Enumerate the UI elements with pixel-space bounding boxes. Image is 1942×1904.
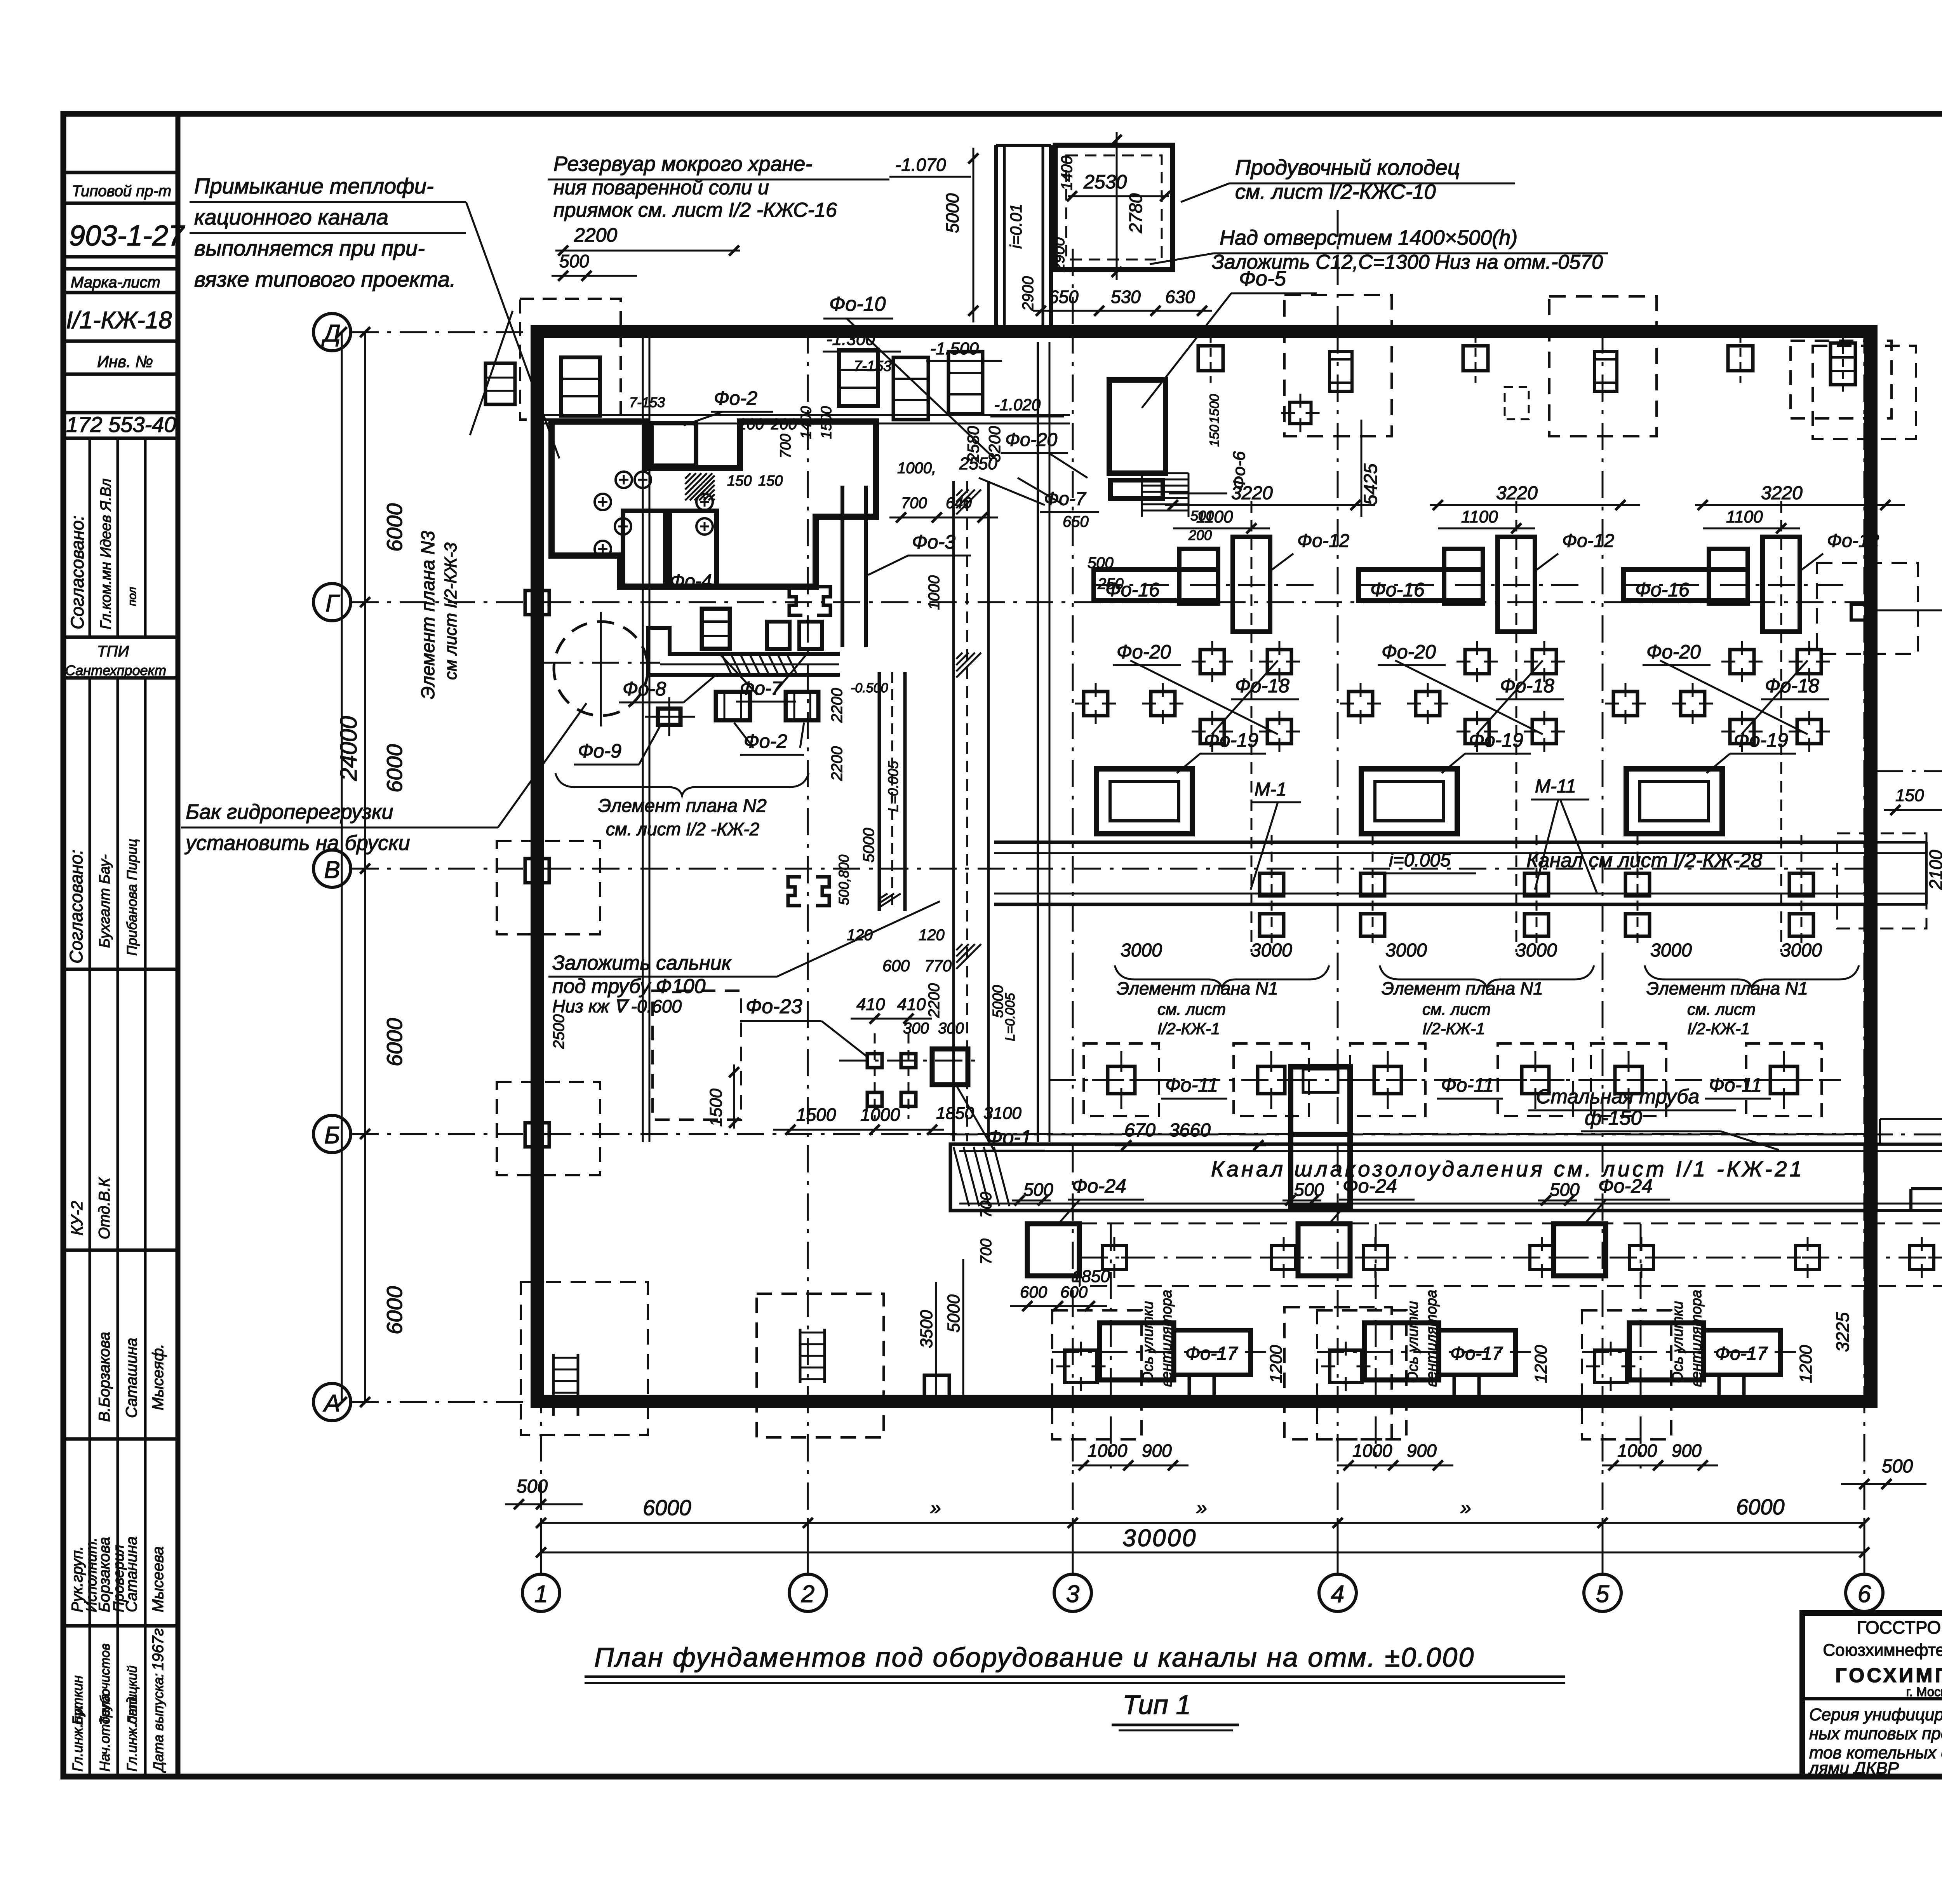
svg-text:-1.500: -1.500 xyxy=(930,339,979,358)
svg-text:вентилятора: вентилятора xyxy=(1423,1290,1440,1387)
svg-text:Фо-10: Фо-10 xyxy=(829,293,886,315)
svg-text:Мысеяф.: Мысеяф. xyxy=(150,1344,167,1410)
svg-text:Б: Б xyxy=(324,1122,340,1149)
svg-text:1500: 1500 xyxy=(796,1104,836,1125)
label Фо-23 xyxy=(740,995,866,1056)
svg-text:2200: 2200 xyxy=(828,746,846,781)
ladder hatch near top wall xyxy=(1142,473,1189,517)
svg-text:Канал см лист I/2-КЖ-28: Канал см лист I/2-КЖ-28 xyxy=(1526,849,1762,872)
hatched pad xyxy=(685,473,715,500)
module 3: label Фо-19 xyxy=(1707,729,1796,773)
svg-text:530: 530 xyxy=(1111,287,1141,307)
module 2: label Фо-20 xyxy=(1378,641,1446,665)
piers pair at axis 2 top xyxy=(889,352,998,523)
svg-text:Фо-18: Фо-18 xyxy=(1500,675,1554,697)
module 1: dim 3220/1100 xyxy=(1165,483,1375,533)
svg-text:Низ кж ∇ -0.600: Низ кж ∇ -0.600 xyxy=(552,996,682,1016)
svg-text:Фо-24: Фо-24 xyxy=(1072,1175,1126,1197)
dims 3500 5000 left of fans xyxy=(917,1259,963,1399)
svg-text:Фо-5: Фо-5 xyxy=(1239,267,1286,290)
outside pier left of wall xyxy=(486,363,515,404)
vertical service line pair left bay xyxy=(643,335,649,1142)
svg-text:Фо-24: Фо-24 xyxy=(1598,1175,1653,1197)
C-bracket symbols xyxy=(788,587,830,906)
svg-text:5000: 5000 xyxy=(860,828,877,862)
foundation Фо-7 row xyxy=(702,609,822,649)
svg-text:вентилятора: вентилятора xyxy=(1688,1290,1705,1387)
svg-text:Фо-20: Фо-20 xyxy=(1117,641,1171,663)
svg-text:Элемент плана N1: Элемент плана N1 xyxy=(1382,978,1543,998)
svg-text:7-153: 7-153 xyxy=(854,358,891,375)
svg-text:А: А xyxy=(322,1390,340,1417)
module 3: dim 3000 row xyxy=(1650,940,1822,961)
svg-text:Отд.В.К: Отд.В.К xyxy=(96,1177,113,1239)
svg-text:Канал шлакозолоудаления см.: Канал шлакозолоудаления см. лист I/1 -КЖ… xyxy=(1211,1157,1805,1181)
element plan 3 thick outline xyxy=(552,422,876,587)
module 1: label Фо-12 xyxy=(1270,531,1349,571)
svg-text:кационного канала: кационного канала xyxy=(194,205,388,229)
svg-text:700: 700 xyxy=(901,495,927,512)
svg-text:Лапицкий: Лапицкий xyxy=(125,1665,140,1726)
Фо-11 row centreline xyxy=(1049,1079,1841,1081)
svg-text:500,800: 500,800 xyxy=(836,855,852,905)
small piers on left wall xyxy=(525,591,549,1147)
extension lines from axis circles xyxy=(351,332,1864,1574)
anchor circles group xyxy=(595,472,713,557)
svg-text:6000: 6000 xyxy=(382,744,407,793)
dim 2200 500 top left xyxy=(552,224,740,281)
module 2: fan foundation Фо-17 group xyxy=(1317,1224,1531,1469)
module 3: channel column pair xyxy=(1789,835,1813,944)
svg-text:Ось улитки: Ось улитки xyxy=(1140,1301,1156,1383)
svg-text:см. лист I/2 -КЖ-2: см. лист I/2 -КЖ-2 xyxy=(606,819,759,839)
module 2: channel column pair xyxy=(1524,835,1650,944)
pad detail at А2 xyxy=(800,1329,825,1383)
text продувочный колодец xyxy=(1181,155,1515,204)
Фо-11 labels xyxy=(1161,1074,1771,1099)
svg-text:3500: 3500 xyxy=(917,1310,936,1348)
module 2: foundation Фо-16 group xyxy=(1359,501,1582,952)
svg-text:см. лист: см. лист xyxy=(1687,1000,1756,1018)
vertical channel Фо-3 xyxy=(842,481,1018,1141)
module 2: label Фо-19 xyxy=(1442,729,1531,773)
svg-text:Стальная труба: Стальная труба xyxy=(1536,1085,1699,1108)
svg-text:700: 700 xyxy=(978,1239,995,1265)
svg-text:Элемент плана N3: Элемент плана N3 xyxy=(418,531,439,699)
svg-text:500: 500 xyxy=(1882,1456,1913,1477)
svg-text:6000: 6000 xyxy=(643,1495,691,1520)
svg-text:Элемент плана N2: Элемент плана N2 xyxy=(598,796,767,816)
svg-text:Ось улитки: Ось улитки xyxy=(1405,1301,1421,1383)
svg-text:i=0.01: i=0.01 xyxy=(1007,204,1025,249)
svg-text:500: 500 xyxy=(559,251,589,271)
svg-text:1: 1 xyxy=(534,1581,548,1608)
svg-text:4: 4 xyxy=(1331,1581,1344,1608)
svg-text:I/2-КЖ-1: I/2-КЖ-1 xyxy=(1157,1019,1220,1038)
svg-text:Фо-23: Фо-23 xyxy=(746,995,802,1018)
foundation Фо-9 xyxy=(574,697,695,765)
svg-text:3225: 3225 xyxy=(1832,1312,1853,1352)
small wall piers top row xyxy=(1198,334,1753,383)
svg-text:Исполнит.: Исполнит. xyxy=(84,1537,100,1612)
title block grid xyxy=(1802,1613,1942,1777)
svg-text:172 553-40: 172 553-40 xyxy=(66,412,176,437)
svg-text:Фо-3: Фо-3 xyxy=(912,531,955,553)
svg-text:вязке типового проекта.: вязке типового проекта. xyxy=(194,267,456,291)
svg-text:Согласовано:: Согласовано: xyxy=(67,516,87,629)
dims 410 410 300 300 1500 1000 xyxy=(706,995,964,1135)
svg-text:Фо-17: Фо-17 xyxy=(1715,1343,1768,1364)
tank dashed rect приямок xyxy=(520,299,621,420)
module 3: foundation Фо-19 xyxy=(1626,769,1722,834)
stamp: 903-1-27 xyxy=(69,219,185,252)
module 1: element plan N1 caption xyxy=(1115,965,1329,1038)
svg-text:3000: 3000 xyxy=(1385,940,1427,961)
module 1: steel embed label М-1 xyxy=(1251,779,1301,890)
svg-text:120: 120 xyxy=(847,927,873,944)
level marks -1.300 -1.500 xyxy=(823,330,1002,361)
svg-text:Фо-19: Фо-19 xyxy=(1734,729,1788,751)
element plan 2 caption xyxy=(555,773,809,839)
svg-text:Фо-16: Фо-16 xyxy=(1635,579,1690,601)
module 2: dims 1200 / 1000 900 xyxy=(1337,1345,1550,1470)
building outer walls xyxy=(537,331,1871,1401)
svg-text:1850: 1850 xyxy=(1072,1267,1110,1286)
module 1: Фо-20 / Фо-18 pier cluster xyxy=(1075,641,1300,752)
svg-text:Фо-18: Фо-18 xyxy=(1765,675,1819,697)
svg-text:630: 630 xyxy=(1165,287,1195,307)
svg-text:вентилятора: вентилятора xyxy=(1159,1290,1175,1387)
svg-text:600: 600 xyxy=(1020,1283,1048,1301)
rotated dim 5425 xyxy=(1361,420,1381,517)
svg-text:700: 700 xyxy=(978,1192,995,1218)
module 2: label Фо-12 xyxy=(1535,531,1614,571)
misc duct dim marks xyxy=(550,681,888,1049)
svg-text:Фо-17: Фо-17 xyxy=(1450,1343,1503,1364)
vertical line from inlet channel down xyxy=(1038,342,1049,1142)
svg-text:i=0.005: i=0.005 xyxy=(1389,850,1451,871)
svg-text:Саташина: Саташина xyxy=(123,1338,140,1418)
svg-text:Фо-18: Фо-18 xyxy=(1235,675,1289,697)
svg-text:Фо-16: Фо-16 xyxy=(1370,579,1425,601)
svg-text:900: 900 xyxy=(1142,1441,1172,1461)
svg-text:Фо-12: Фо-12 xyxy=(1562,531,1614,551)
axis circle Д xyxy=(313,314,351,351)
main caption план фундаментов xyxy=(585,1642,1565,1683)
label Фо-10 xyxy=(823,293,994,458)
text бак гидроперегрузки xyxy=(181,703,586,855)
slag removal channel канал шлакозолоудаления xyxy=(950,1119,1942,1211)
label Фо-7 near axis 2 xyxy=(979,478,1099,512)
svg-text:300: 300 xyxy=(903,1020,929,1037)
svg-text:500: 500 xyxy=(1088,554,1114,571)
svg-text:5: 5 xyxy=(1596,1581,1610,1608)
svg-text:Фо-11: Фо-11 xyxy=(1165,1074,1218,1096)
svg-text:1200: 1200 xyxy=(1796,1345,1815,1383)
module 3: dims 1200 / 1000 900 xyxy=(1602,1345,1815,1470)
svg-text:-0.500: -0.500 xyxy=(851,681,888,695)
module 1: channel column pair xyxy=(1260,835,1385,944)
svg-text:Мысеева: Мысеева xyxy=(150,1547,167,1613)
svg-text:»: » xyxy=(930,1497,941,1519)
svg-text:5000: 5000 xyxy=(942,193,962,233)
axis circle 6 xyxy=(1846,1574,1883,1611)
svg-text:см лист I/2-КЖ-3: см лист I/2-КЖ-3 xyxy=(441,542,460,680)
module 1: label Фо-20 xyxy=(1113,641,1181,665)
Фо-11 dashed boiler column foundations xyxy=(1084,1043,1822,1116)
svg-text:Марка-лист: Марка-лист xyxy=(71,274,160,291)
svg-text:1500: 1500 xyxy=(1207,394,1222,423)
svg-text:»: » xyxy=(1460,1497,1471,1519)
module 1: label Фо-19 xyxy=(1177,729,1266,773)
svg-text:2780: 2780 xyxy=(1126,193,1146,233)
svg-text:Заложить сальник: Заложить сальник xyxy=(552,952,732,974)
label Фо-7 xyxy=(719,653,808,702)
svg-text:1000: 1000 xyxy=(1088,1441,1128,1461)
svg-text:770: 770 xyxy=(924,956,952,975)
svg-text:Фо-8: Фо-8 xyxy=(623,678,666,700)
rotated label элемент плана N3 xyxy=(418,311,513,699)
rotated dims right margin 2100 2740 5530 3225 xyxy=(1832,835,1942,1360)
dims 500 250 650 xyxy=(1063,513,1124,592)
dim 670 3660 xyxy=(1115,1120,1266,1150)
svg-text:650: 650 xyxy=(1049,287,1079,307)
main channel канал I/2-КЖ-28 xyxy=(994,842,1874,904)
module 3: label Фо-20 xyxy=(1643,641,1711,665)
svg-text:ТПИ: ТПИ xyxy=(97,643,129,660)
svg-text:Гл.ком.мн Идеев Я.Вл: Гл.ком.мн Идеев Я.Вл xyxy=(98,479,114,629)
svg-text:1967г: 1967г xyxy=(150,1628,167,1671)
text примыкание теплофикационного канала xyxy=(190,174,559,458)
svg-text:3220: 3220 xyxy=(1231,483,1273,503)
svg-text:670: 670 xyxy=(1124,1120,1155,1141)
svg-text:Фо-20: Фо-20 xyxy=(1382,641,1436,663)
label Фо-1 xyxy=(955,1084,1045,1151)
svg-text:1200: 1200 xyxy=(1531,1345,1550,1383)
stamp: signatures band (rotated) xyxy=(69,1332,167,1612)
svg-text:Буткин: Буткин xyxy=(70,1675,85,1725)
svg-text:М-1: М-1 xyxy=(1255,779,1287,800)
dims 650 530 630 xyxy=(1033,287,1212,316)
svg-text:1500: 1500 xyxy=(706,1089,726,1127)
svg-text:-1.020: -1.020 xyxy=(994,395,1041,414)
text резервуар xyxy=(548,152,889,221)
module 3: label Фо-12 xyxy=(1800,531,1879,571)
svg-text:Продувочный колодец: Продувочный колодец xyxy=(1235,155,1460,179)
svg-text:700: 700 xyxy=(778,434,794,458)
foundation Фо-2 upper with dims xyxy=(629,387,835,489)
svg-text:650: 650 xyxy=(1063,513,1089,530)
dims 700 700 600 600 xyxy=(978,1192,1107,1311)
svg-text:г. Москва: г. Москва xyxy=(1906,1685,1942,1699)
bottom dim chain 30000 xyxy=(536,1525,1869,1557)
svg-text:Фо-24: Фо-24 xyxy=(1343,1175,1397,1197)
svg-text:120: 120 xyxy=(919,927,945,944)
lower Фо-2 pair xyxy=(716,692,818,755)
svg-text:Фо-17: Фо-17 xyxy=(1185,1343,1239,1364)
central duct stack xyxy=(1291,1067,1350,1206)
slag channel caption xyxy=(1211,1157,1805,1181)
right margin top dashed pad xyxy=(1791,334,1892,418)
svg-text:3000: 3000 xyxy=(1516,940,1557,961)
module 1: ось улитки вентилятора (rotated) xyxy=(1140,1290,1175,1387)
svg-text:300: 300 xyxy=(938,1020,964,1037)
small pads near Фо-1 xyxy=(839,1033,979,1119)
module 2: element plan N1 caption xyxy=(1380,965,1594,1038)
row axis dash-dot lines xyxy=(352,332,1876,1402)
small wall piers bottom row xyxy=(924,1375,1744,1400)
crane beam lines xyxy=(535,415,1070,463)
svg-text:Резервуар мокрого хране-: Резервуар мокрого хране- xyxy=(553,152,812,176)
second vertical duct xyxy=(860,672,905,911)
svg-text:L=0.005: L=0.005 xyxy=(885,761,901,812)
axis circle 5 xyxy=(1584,1574,1621,1611)
module 2: label Фо-18 xyxy=(1496,675,1564,699)
svg-text:Трубочистов: Трубочистов xyxy=(98,1643,113,1725)
svg-text:Фо-19: Фо-19 xyxy=(1469,729,1523,751)
top dashed foundation at axis 4 xyxy=(1281,295,1392,436)
svg-text:250: 250 xyxy=(1097,575,1124,592)
svg-text:Фо-11: Фо-11 xyxy=(1441,1074,1494,1096)
svg-text:3: 3 xyxy=(1066,1581,1079,1608)
module 2: dim 3220/1100 xyxy=(1430,483,1640,533)
svg-text:24000: 24000 xyxy=(336,716,362,781)
svg-text:Г: Г xyxy=(325,590,340,617)
dim texts near Фо-2 xyxy=(854,358,1064,416)
svg-text:150: 150 xyxy=(758,473,783,489)
svg-text:М-11: М-11 xyxy=(1535,776,1576,797)
axis circle 1 xyxy=(522,1574,560,1611)
module 2: Фо-20 / Фо-18 pier cluster xyxy=(1340,641,1565,752)
svg-text:1000: 1000 xyxy=(926,575,943,610)
svg-text:Фо-20: Фо-20 xyxy=(1005,430,1058,450)
svg-text:2500: 2500 xyxy=(550,1014,567,1049)
dashed pad below tank circle xyxy=(653,991,741,1120)
module 3: label Фо-18 xyxy=(1761,675,1829,699)
column axis dash-dot lines xyxy=(541,210,1864,1573)
channel slope text i=0.005 xyxy=(1383,850,1476,873)
label Фо-20 top area xyxy=(1001,430,1088,478)
svg-text:6000: 6000 xyxy=(382,1286,407,1334)
channel right extension xyxy=(1837,833,1926,928)
svg-text:2900: 2900 xyxy=(1020,276,1037,311)
svg-text:903-1-27: 903-1-27 xyxy=(69,219,185,252)
svg-text:пол: пол xyxy=(126,587,139,606)
foundation Фо-6 bar xyxy=(1110,394,1249,543)
left stamp strip cells xyxy=(63,172,178,1777)
svg-text:см. лист: см. лист xyxy=(1157,1000,1226,1018)
svg-text:Фо-11: Фо-11 xyxy=(1709,1074,1762,1096)
svg-text:Фо-1: Фо-1 xyxy=(987,1126,1032,1149)
svg-text:см. лист I/2-КЖС-10: см. лист I/2-КЖС-10 xyxy=(1235,180,1436,204)
top dashed foundation at axis 5 xyxy=(1505,296,1657,436)
stamp: ТПИ Сантехпроект xyxy=(65,643,166,678)
piers below top wall left bay xyxy=(561,350,878,416)
svg-text:Д: Д xyxy=(321,320,341,347)
svg-text:3000: 3000 xyxy=(1251,940,1292,961)
module 3: fan foundation Фо-17 group xyxy=(1582,1224,1796,1469)
svg-text:2200: 2200 xyxy=(828,688,846,723)
dims 120 600 770 3100 1850 xyxy=(847,927,1110,1286)
stamp: I/1-КЖ-18 xyxy=(66,307,172,334)
svg-text:2200: 2200 xyxy=(926,983,943,1018)
svg-text:500: 500 xyxy=(1550,1179,1580,1200)
axis circle 2 xyxy=(789,1574,827,1611)
svg-text:Серия унифицирован-: Серия унифицирован- xyxy=(1809,1705,1942,1724)
steel pipe label стальная труба xyxy=(1528,1085,1779,1150)
svg-text:Элемент плана N1: Элемент плана N1 xyxy=(1117,978,1278,998)
svg-text:ния поваренной соли и: ния поваренной соли и xyxy=(553,176,769,199)
module 1: fan foundation Фо-17 group xyxy=(1052,1224,1266,1469)
svg-text:410: 410 xyxy=(897,995,926,1014)
svg-text:410: 410 xyxy=(856,995,885,1014)
svg-text:200: 200 xyxy=(1188,527,1212,543)
svg-text:Фо-2: Фо-2 xyxy=(744,730,787,752)
svg-text:600: 600 xyxy=(882,956,910,975)
label Фо-5 xyxy=(1142,267,1317,408)
svg-text:лями ДКВР: лями ДКВР xyxy=(1808,1759,1899,1778)
svg-text:I/2-КЖ-1: I/2-КЖ-1 xyxy=(1687,1019,1750,1038)
stamp: Согласовано block 2 (rotated) xyxy=(66,839,140,1239)
svg-text:установить на бруски: установить на бруски xyxy=(184,831,410,855)
module 3: Фо-20 / Фо-18 pier cluster xyxy=(1605,641,1830,752)
svg-text:ГОСХИМПРОЕКТ: ГОСХИМПРОЕКТ xyxy=(1835,1664,1942,1687)
svg-text:2100: 2100 xyxy=(1926,850,1942,890)
module 1: label Фо-18 xyxy=(1231,675,1299,699)
svg-text:900: 900 xyxy=(1672,1441,1702,1461)
svg-text:150: 150 xyxy=(727,473,752,489)
stamp: 172 553-40 xyxy=(66,412,176,437)
channel caption канал см лист I2-КЖ-28 xyxy=(1526,849,1762,872)
module 1: foundation Фо-19 xyxy=(1096,769,1192,834)
foundation Фо-4 pair xyxy=(623,511,717,592)
axis circle В xyxy=(313,850,351,887)
svg-text:Согласовано:: Согласовано: xyxy=(66,850,86,963)
svg-text:2200: 2200 xyxy=(574,224,617,246)
vertical inlet channel at top xyxy=(889,145,1075,331)
svg-text:3100: 3100 xyxy=(983,1104,1021,1123)
svg-text:ГОССТРОЙ СССР: ГОССТРОЙ СССР xyxy=(1857,1617,1942,1637)
svg-text:Элемент плана N1: Элемент плана N1 xyxy=(1646,978,1808,998)
svg-text:6: 6 xyxy=(1858,1581,1871,1608)
module 1: foundation Фо-16 group xyxy=(1094,501,1317,952)
svg-text:Фо-12: Фо-12 xyxy=(1827,531,1879,551)
svg-text:6000: 6000 xyxy=(382,503,407,552)
svg-text:Дата выпуска:: Дата выпуска: xyxy=(150,1673,166,1773)
svg-text:L=0.005: L=0.005 xyxy=(1003,993,1018,1041)
svg-text:Фо-4: Фо-4 xyxy=(670,571,712,592)
stamp: Согласовано block 1 (rotated) xyxy=(67,479,139,629)
svg-text:-1.300: -1.300 xyxy=(827,330,875,349)
svg-text:Фо-7: Фо-7 xyxy=(1044,489,1087,509)
svg-text:2530: 2530 xyxy=(1083,171,1127,193)
ladder symbol at А1 xyxy=(553,1354,578,1416)
svg-text:3220: 3220 xyxy=(1496,483,1538,503)
stamp: bottom officials (rotated) xyxy=(70,1628,167,1773)
module 2: steel embed label М-1 xyxy=(1531,776,1597,894)
axis circle Г xyxy=(313,584,351,621)
svg-text:КУ-2: КУ-2 xyxy=(68,1201,86,1235)
svg-text:2550: 2550 xyxy=(959,454,997,473)
svg-text:Фо-2: Фо-2 xyxy=(714,387,757,409)
svg-text:3000: 3000 xyxy=(1780,940,1822,961)
module 1: dims 1200 / 1000 900 xyxy=(1072,1345,1286,1470)
svg-text:6000: 6000 xyxy=(1736,1495,1785,1519)
svg-text:5425: 5425 xyxy=(1361,463,1381,505)
module 3: dim 3220/1100 xyxy=(1695,483,1905,533)
svg-text:под трубу Ф100: под трубу Ф100 xyxy=(552,975,706,998)
axis circle 4 xyxy=(1319,1574,1356,1611)
